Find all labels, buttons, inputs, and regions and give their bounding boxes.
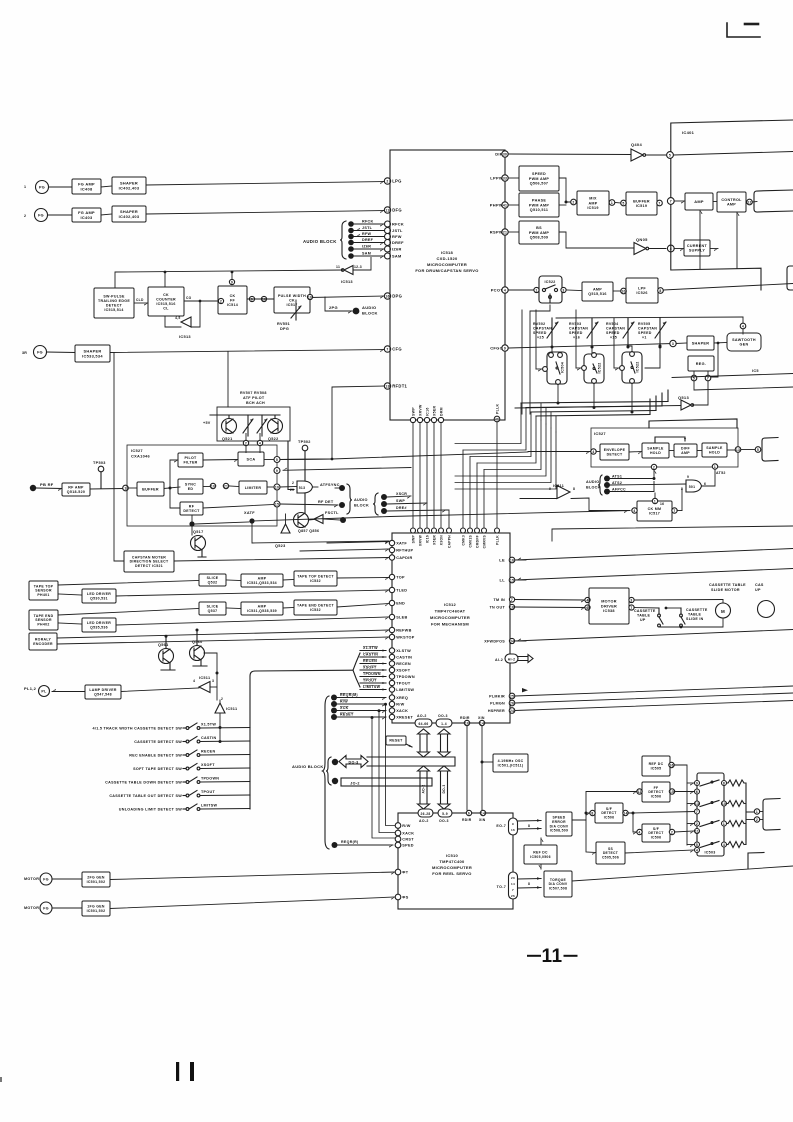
wire Q404 out [647, 154, 667, 156]
svg-text:12-3: 12-3 [354, 265, 362, 269]
svg-text:FG: FG [38, 214, 44, 218]
svg-text:DIFF: DIFF [681, 447, 691, 451]
pin reqr 510 [395, 842, 401, 848]
svg-text:IC507,508: IC507,508 [549, 887, 567, 891]
wire pbrf [36, 488, 62, 491]
svg-text:PL1,2: PL1,2 [24, 686, 37, 691]
pin md out1 [629, 597, 634, 602]
wire LPPW [509, 177, 519, 179]
svg-text:14: 14 [480, 721, 484, 725]
pin XFWDPOS [509, 638, 514, 643]
svg-text:AUDIO BLOCK: AUDIO BLOCK [303, 239, 337, 244]
svg-text:SLIDE IN: SLIDE IN [686, 617, 704, 621]
wire pot1 to sw [551, 347, 553, 353]
wire q513 in [515, 406, 681, 409]
svg-text:MOTOR: MOTOR [24, 877, 39, 881]
node 7 [667, 198, 674, 205]
svg-text:IC408: IC408 [81, 186, 93, 191]
pin CASTIN [389, 654, 412, 659]
svg-text:CMDFF: CMDFF [475, 535, 479, 548]
box CK COUNTER IC515 516 [148, 287, 184, 316]
wire [727, 823, 729, 825]
pin ckmm top [652, 498, 657, 503]
wire [727, 782, 729, 784]
wire to phiS [110, 897, 395, 909]
svg-text:IZ6R: IZ6R [392, 247, 402, 252]
wire sca-out [264, 459, 274, 461]
motor M cassette [716, 603, 731, 618]
wire tri stub [219, 700, 221, 703]
svg-text:AO-2: AO-2 [417, 714, 427, 718]
box SHAPER IC402 [112, 177, 146, 194]
node XATF [249, 518, 254, 523]
wire rail tap 803.5 [687, 804, 694, 807]
node 2PG audio [353, 308, 360, 315]
box CURRENT SUPPLY [684, 240, 710, 256]
node buf [169, 487, 172, 490]
svg-text:RESET: RESET [389, 739, 403, 743]
svg-text:AMP: AMP [258, 577, 267, 581]
wire to motor [722, 600, 724, 604]
pin swr 10 [722, 801, 727, 806]
svg-text:LIMITER: LIMITER [245, 486, 262, 490]
svg-text:5: 5 [622, 201, 624, 205]
pin &#934;S 510 [395, 894, 409, 900]
pin env 1 [712, 464, 717, 469]
wire amp to lpf [613, 290, 622, 292]
pin DRM bottom [438, 417, 443, 422]
wire pilot box drop [288, 441, 294, 490]
wire tmin [515, 600, 585, 603]
wire bs out [559, 232, 634, 248]
pin reg 7 [705, 375, 711, 381]
box DIFF AMP [674, 444, 697, 457]
wire [727, 803, 729, 805]
svg-text:8: 8 [591, 811, 593, 815]
pin FF out [249, 296, 254, 301]
wire pot top rail [556, 317, 743, 318]
svg-text:FG: FG [43, 878, 49, 882]
node osc [481, 761, 484, 764]
node AFPCC [604, 489, 610, 495]
switch TPOUT [109, 790, 250, 798]
wire 2PG [325, 297, 352, 314]
svg-text:X1.5TW: X1.5TW [363, 646, 378, 650]
wire req verticals [372, 705, 395, 839]
pin sw 4 [695, 848, 700, 853]
svg-text:DIR: DIR [495, 152, 503, 157]
node r2 [593, 406, 596, 409]
box SS DETECT IC505 506 [596, 842, 625, 864]
wire [746, 819, 754, 821]
svg-text:10: 10 [211, 484, 215, 488]
wire [101, 186, 112, 187]
wire JSTL [353, 230, 384, 232]
wire pin9 long [283, 468, 411, 471]
wire XSCR [387, 496, 411, 499]
svg-text:AI-2: AI-2 [495, 658, 503, 662]
svg-text:25: 25 [510, 694, 514, 698]
wire ss to sw [625, 850, 694, 853]
svg-text:16: 16 [660, 502, 664, 506]
svg-text:REFWB: REFWB [396, 629, 411, 633]
wire LL long [515, 569, 793, 581]
pin PW in [261, 296, 266, 301]
pin RFW [385, 234, 402, 240]
wire RFW arrow [356, 234, 384, 237]
svg-text:CASTIN: CASTIN [396, 656, 412, 660]
wire FG to FG AMP [48, 214, 73, 216]
svg-text:6: 6 [696, 790, 698, 794]
pin XIN b [480, 810, 485, 815]
svg-text:TAPE END: TAPE END [34, 614, 54, 618]
svg-text:Q530,531: Q530,531 [90, 596, 108, 600]
svg-text:DRM: DRM [439, 407, 443, 416]
svg-text:LAMP DRIVER: LAMP DRIVER [89, 688, 117, 692]
svg-text:2PG: 2PG [329, 305, 338, 310]
svg-text:CASSETTE TABLE DOWN DETECT SW: CASSETTE TABLE DOWN DETECT SW [105, 781, 182, 785]
svg-text:IC5: IC5 [752, 369, 759, 373]
svg-text:IC402,403: IC402,403 [119, 214, 140, 219]
pin top CAPPH [447, 528, 452, 533]
svg-text:IC505: IC505 [651, 766, 662, 770]
svg-text:XSOFT: XSOFT [396, 669, 411, 673]
wire feedback top [115, 270, 343, 288]
svg-text:MOTOR: MOTOR [601, 600, 617, 604]
wire to rfdet [170, 488, 180, 508]
svg-text:SPEED: SPEED [532, 172, 546, 176]
wire rail tap 823.5 [687, 824, 694, 827]
svg-text:CK: CK [230, 294, 236, 298]
node DRE# [381, 508, 387, 514]
box 1FG GEN IC501 502 [82, 901, 110, 916]
svg-text:IC531,Q533,534: IC531,Q533,534 [247, 581, 277, 585]
pin FF top [229, 279, 234, 284]
svg-text:XATF: XATF [244, 511, 255, 515]
svg-text:SPEED: SPEED [638, 331, 652, 335]
bracket ats [598, 475, 602, 495]
svg-text:13: 13 [385, 384, 389, 388]
svg-text:RDIR: RDIR [460, 716, 470, 720]
pin lpf in [621, 288, 627, 294]
svg-text:SWP: SWP [411, 407, 415, 416]
svg-text:TRAILING EDGE: TRAILING EDGE [98, 299, 130, 303]
wire amp fb [700, 210, 703, 269]
svg-text:Q521: Q521 [222, 437, 233, 441]
wire slice-amp1 [226, 579, 241, 582]
svg-text:9: 9 [696, 781, 698, 785]
wire xatf in [327, 542, 389, 545]
wire xatf to ic512 [252, 521, 389, 544]
svg-text:DETECT IC521: DETECT IC521 [135, 564, 163, 568]
wire RFCK [353, 224, 384, 227]
pin IC16 bottom [424, 417, 429, 422]
svg-text:PWM AMP: PWM AMP [529, 231, 549, 235]
connector FG reel1 [40, 873, 52, 885]
node RV503 [591, 346, 594, 349]
wire sw2 bottom [593, 383, 595, 408]
svg-text:CAPSTAN: CAPSTAN [569, 327, 588, 331]
svg-text:TAPE TOP: TAPE TOP [34, 584, 54, 588]
wire reg p7 [707, 371, 709, 375]
wire buf out [164, 487, 180, 489]
bus DO-3 bar [367, 757, 455, 766]
svg-text:SAM: SAM [362, 252, 371, 256]
svg-text:IZ6R: IZ6R [362, 245, 371, 249]
connector big right [758, 601, 775, 618]
svg-text:WKSTOP: WKSTOP [396, 636, 415, 640]
svg-text:Q404: Q404 [631, 142, 642, 147]
box PILOT FILTER [178, 453, 203, 467]
box AMP IC531 Q538 [241, 602, 283, 615]
svg-text:14: 14 [623, 811, 627, 815]
bus OO-3 lower [438, 766, 450, 809]
svg-text:AMP: AMP [593, 288, 602, 292]
node RESET [331, 714, 337, 720]
svg-text:IC531,Q538,539: IC531,Q538,539 [247, 609, 277, 613]
pin REFWB [389, 627, 411, 632]
pin RDIR b [466, 810, 471, 815]
flag marker [522, 688, 528, 692]
node sw2 tap [219, 740, 222, 743]
node FSCTL [340, 517, 346, 523]
svg-text:18: 18 [510, 605, 514, 609]
node IZ6R [348, 246, 354, 252]
node ats j [653, 477, 656, 480]
wire refdc rail [674, 765, 687, 845]
svg-text:513: 513 [299, 486, 306, 490]
pin sw 9 [695, 781, 700, 786]
pin PLMGN [509, 700, 515, 706]
box LAMP DRIVER Q547 548 [85, 685, 121, 699]
box BUFFER IC519 [626, 192, 657, 215]
node se [585, 812, 588, 815]
wire to envelope [528, 452, 590, 455]
bracket xscr [373, 493, 378, 515]
svg-text:RESET: RESET [340, 713, 354, 717]
transistor Q522 [268, 419, 283, 442]
svg-text:IC403: IC403 [81, 215, 93, 220]
svg-text:4: 4 [504, 288, 506, 292]
wire sh2 out [727, 449, 735, 451]
svg-text:CRST: CRST [402, 838, 414, 842]
svg-text:TAPE TOP DETECT: TAPE TOP DETECT [297, 575, 334, 579]
wire loop IC401 [671, 120, 793, 246]
box TAPE END DETECT IC532 [294, 600, 337, 615]
pin IZ6R [385, 246, 402, 252]
svg-text:CFGO: CFGO [490, 346, 503, 351]
pin TPDOWN [389, 674, 415, 679]
svg-text:CASTIN: CASTIN [363, 653, 378, 657]
wire tnout [515, 607, 585, 610]
wire shaper to pilot box [227, 352, 229, 408]
svg-text:IC512: IC512 [444, 602, 457, 607]
wire atfsync [335, 487, 339, 489]
pin XACK 510 [395, 830, 414, 836]
wire SLEB [116, 617, 389, 625]
bus DO-3 hexagon [339, 756, 368, 768]
wire cable collector [250, 670, 353, 809]
svg-text:PG: PG [39, 186, 45, 190]
op-amp U IC510 TMP47C400 microcomputer [398, 813, 513, 909]
svg-text:SLICE: SLICE [207, 605, 219, 609]
svg-text:RFTHUP: RFTHUP [396, 549, 413, 553]
svg-text:BUFFER: BUFFER [633, 200, 650, 204]
svg-text:CAS: CAS [755, 583, 764, 587]
switch TPDOWN [105, 777, 250, 785]
wire to amp515 [566, 289, 581, 292]
svg-text:MICROCOMPUTER: MICROCOMPUTER [430, 615, 470, 620]
box BS PWM AMP [519, 221, 559, 244]
box MIX AMP IC519 [577, 191, 609, 215]
svg-text:C505,506: C505,506 [602, 856, 619, 860]
svg-text:8: 8 [573, 487, 575, 491]
inverter Q513 [681, 400, 694, 410]
wire DREF [353, 243, 384, 246]
svg-text:LPPW: LPPW [490, 176, 503, 181]
pin SPED 510 [395, 842, 414, 848]
wire gate out [313, 486, 319, 488]
wire rfamp out [90, 488, 123, 491]
svg-text:RFW: RFW [362, 232, 372, 236]
wire col614 [613, 318, 615, 368]
svg-text:2: 2 [245, 441, 247, 445]
svg-text:JSTL: JSTL [392, 228, 403, 233]
wire counter to FF [184, 300, 218, 302]
svg-text:PWM AMP: PWM AMP [529, 177, 549, 181]
box LED DRIVER Q530 531 [82, 589, 116, 603]
svg-text:XSOFT: XSOFT [201, 763, 215, 767]
pin top SWP [411, 528, 416, 533]
svg-text:IC501,(IC511): IC501,(IC511) [498, 763, 524, 767]
svg-text:RV507 RV508: RV507 RV508 [240, 391, 267, 395]
wire FF to pulsewidth [247, 298, 274, 300]
node swt [665, 607, 668, 610]
svg-text:×16: ×16 [573, 336, 580, 340]
svg-text:MOTOR: MOTOR [24, 906, 39, 910]
svg-text:XCK: XCK [340, 706, 349, 710]
box SF DETECT IC506 a [595, 803, 623, 823]
switch lever 8 [700, 780, 719, 786]
svg-text:5: 5 [757, 448, 759, 452]
wire fsctl [323, 519, 340, 520]
bracket audio block [340, 221, 346, 259]
amp IC511 a [199, 682, 210, 693]
svg-text:IC511: IC511 [553, 484, 564, 488]
svg-text:AO-2: AO-2 [419, 819, 429, 823]
box SHAPER right [687, 336, 714, 350]
node v1 [371, 716, 374, 719]
svg-text:TABLE: TABLE [637, 614, 651, 618]
wire to castin [219, 728, 221, 742]
wire ff to sw [675, 792, 695, 795]
box SCA [238, 452, 264, 466]
wire ctrl fb [737, 212, 740, 268]
wire rf det [280, 504, 338, 508]
svg-text:26-28: 26-28 [421, 812, 431, 816]
pin LPG [384, 178, 401, 184]
wire sh to reg7 [711, 343, 718, 377]
pin top X3ON [439, 528, 444, 533]
svg-text:IC401: IC401 [682, 130, 695, 135]
wire capdir [174, 558, 389, 562]
svg-text:3: 3 [562, 288, 564, 292]
wire right rail [672, 374, 793, 378]
registration bars bottom [176, 1062, 194, 1081]
svg-text:Q506,507: Q506,507 [530, 181, 549, 185]
svg-text:41: 41 [503, 203, 507, 207]
bus AO-2 lower [418, 766, 430, 809]
pin LIMITSW [389, 687, 414, 692]
svg-text:13: 13 [695, 802, 699, 806]
svg-text:13: 13 [736, 448, 740, 452]
wire REFWB [57, 630, 389, 638]
wire lamp in [121, 688, 199, 692]
svg-text:PH401: PH401 [37, 593, 49, 597]
svg-text:UP: UP [640, 618, 646, 622]
pin 26-28 oval [418, 809, 433, 823]
box ROTARY ENCODER [29, 633, 57, 650]
wire q513 to reg [693, 381, 709, 405]
svg-text:5-9: 5-9 [442, 812, 448, 816]
node RV504 [627, 346, 630, 349]
svg-text:1-4: 1-4 [441, 722, 447, 726]
svg-text:11: 11 [541, 946, 562, 967]
svg-text:XACK: XACK [396, 709, 408, 713]
svg-text:Q510,511: Q510,511 [530, 208, 548, 212]
wire drop counter [164, 272, 166, 287]
svg-text:LIMITSW: LIMITSW [363, 685, 381, 689]
node DREF [348, 240, 354, 246]
wire [229, 485, 239, 488]
wire outer env loop [649, 419, 737, 428]
svg-text:FOR REEL SERVO: FOR REEL SERVO [432, 871, 471, 876]
node RFW [348, 234, 354, 240]
svg-text:CM01S: CM01S [468, 535, 472, 548]
connector PL [39, 686, 50, 697]
wire DRE# [387, 510, 446, 513]
node p3 [627, 345, 630, 348]
box MOTOR DRIVER IC538 [589, 588, 629, 624]
svg-text:SCA: SCA [247, 457, 256, 461]
pin sw 7 [695, 809, 700, 814]
node v2 [378, 709, 381, 712]
svg-text:15: 15 [275, 502, 279, 506]
svg-text:MICROCOMPUTER: MICROCOMPUTER [427, 262, 467, 267]
svg-text:XRVW: XRVW [418, 404, 422, 416]
wire IZ6R [353, 249, 384, 252]
pin RECEN [389, 661, 411, 666]
wire osc tap [482, 761, 493, 763]
svg-text:IC533,534: IC533,534 [82, 353, 103, 358]
svg-text:4: 4 [723, 843, 725, 847]
svg-text:RFDT1: RFDT1 [392, 384, 407, 389]
svg-text:R/W: R/W [402, 824, 410, 828]
wire to phiT [110, 872, 395, 880]
box REF DC IC505 [642, 756, 670, 776]
pin reg 5 [691, 375, 697, 381]
wire bus verticals [413, 422, 497, 528]
wire amp to control [713, 201, 717, 203]
svg-text:Q515,516: Q515,516 [588, 292, 607, 296]
box SAWTOOTH GEN [727, 333, 761, 351]
wire sw bottom bus [659, 618, 723, 627]
svg-text:IC522: IC522 [598, 362, 602, 373]
node 3 [670, 340, 676, 346]
svg-text:Q517: Q517 [193, 530, 204, 534]
wire reg p5 [693, 371, 695, 375]
svg-text:RV502: RV502 [533, 322, 545, 326]
